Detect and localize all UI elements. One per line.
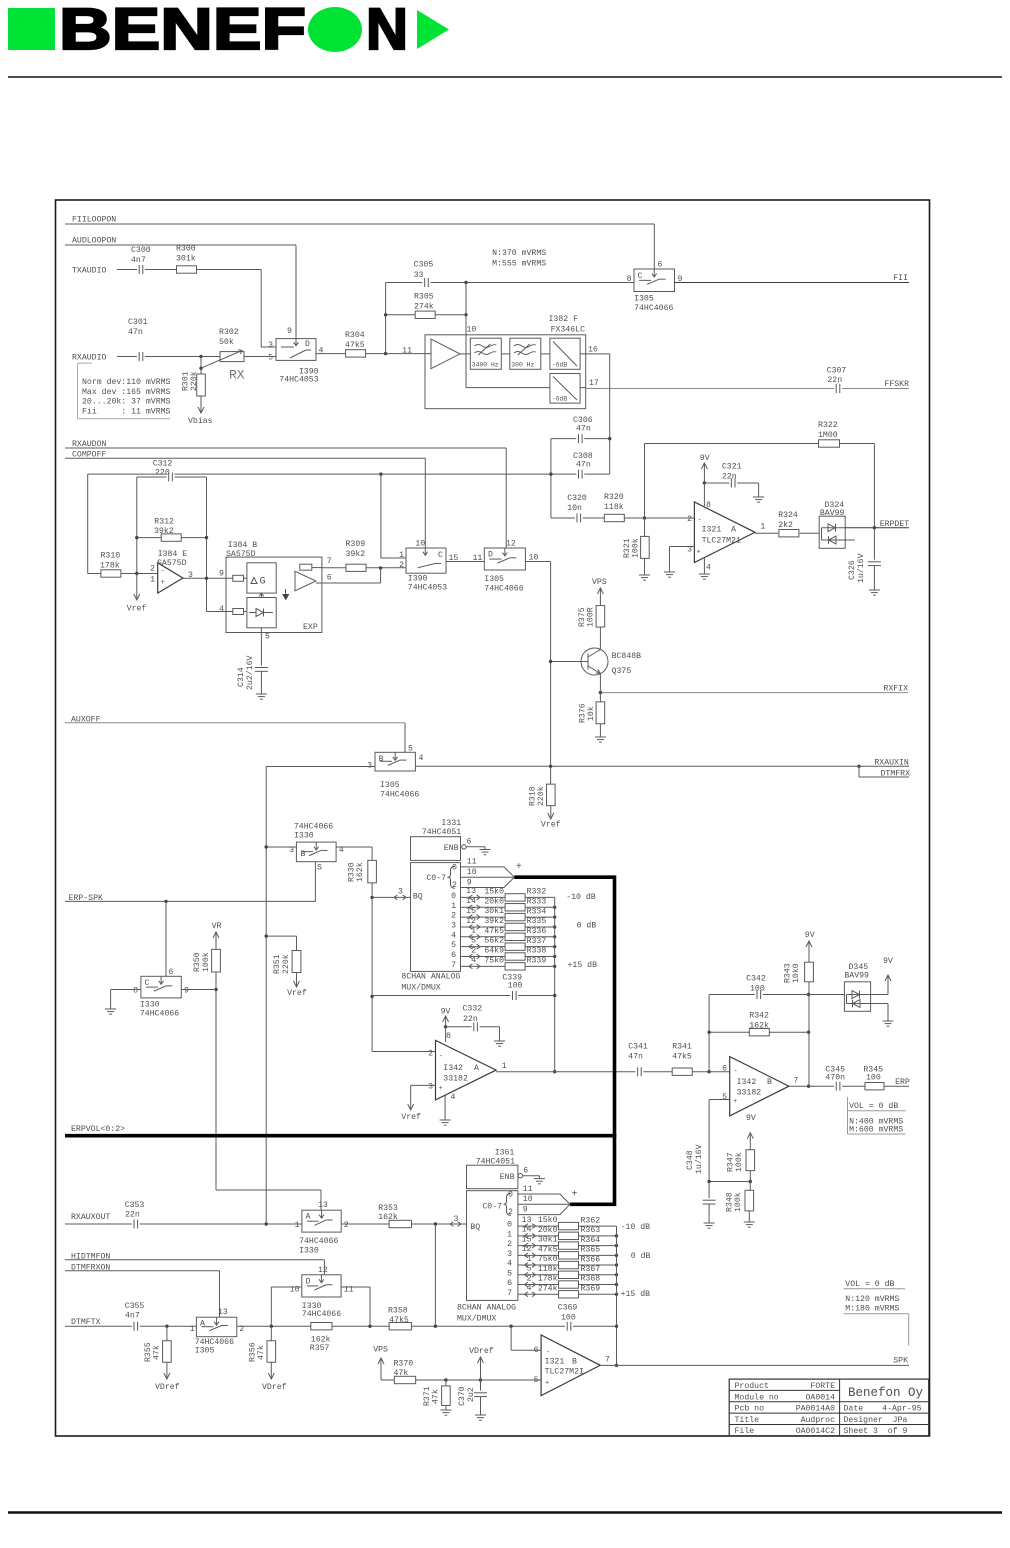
- svg-text:4-Apr-95: 4-Apr-95: [882, 1405, 921, 1414]
- svg-text:50k: 50k: [219, 337, 234, 347]
- svg-text:+: +: [439, 1085, 443, 1093]
- svg-text:ENB: ENB: [444, 844, 459, 853]
- svg-text:N:120 mVRMS: N:120 mVRMS: [845, 1295, 899, 1304]
- svg-text:I330: I330: [140, 1001, 160, 1010]
- svg-text:C370: C370: [458, 1386, 467, 1406]
- svg-text:2u2/16V: 2u2/16V: [245, 656, 255, 690]
- svg-text:1: 1: [502, 1062, 507, 1071]
- svg-text:1: 1: [150, 576, 155, 585]
- svg-text:R350: R350: [193, 952, 202, 972]
- svg-text:VR: VR: [212, 922, 222, 931]
- svg-text:Title: Title: [735, 1415, 760, 1425]
- svg-text:0: 0: [451, 892, 456, 901]
- svg-text:15: 15: [522, 1235, 532, 1244]
- svg-text:5: 5: [265, 633, 270, 642]
- svg-text:3: 3: [451, 921, 456, 930]
- svg-text:I305: I305: [195, 1347, 215, 1356]
- svg-text:I305: I305: [380, 781, 400, 790]
- svg-text:R335: R335: [527, 917, 547, 926]
- svg-text:220k: 220k: [281, 954, 291, 974]
- svg-text:74HC4053: 74HC4053: [279, 376, 318, 385]
- svg-text:3: 3: [268, 341, 273, 350]
- svg-text:-: -: [734, 1068, 738, 1076]
- svg-text:14: 14: [466, 897, 476, 906]
- svg-text:C326: C326: [848, 560, 857, 580]
- svg-text:BAV99: BAV99: [844, 971, 869, 980]
- svg-text:TLC27M21: TLC27M21: [702, 537, 741, 546]
- svg-text:R366: R366: [581, 1255, 601, 1264]
- svg-text:I321: I321: [702, 526, 722, 535]
- svg-text:B: B: [379, 755, 384, 764]
- svg-text:+: +: [733, 1098, 737, 1106]
- svg-text:BC848B: BC848B: [612, 652, 642, 661]
- svg-text:22n: 22n: [125, 1211, 140, 1220]
- svg-text:Q375: Q375: [612, 667, 632, 676]
- svg-text:100R: 100R: [587, 607, 596, 627]
- svg-text:10k0: 10k0: [791, 963, 801, 983]
- svg-text:C314: C314: [237, 667, 246, 687]
- svg-text:47k5: 47k5: [484, 926, 504, 936]
- svg-text:6: 6: [507, 1279, 512, 1288]
- svg-text:A: A: [306, 1213, 311, 1222]
- svg-text:5: 5: [722, 1093, 727, 1102]
- svg-text:64k9: 64k9: [484, 946, 504, 956]
- svg-text:11: 11: [467, 858, 477, 867]
- svg-text:Audproc: Audproc: [801, 1415, 835, 1425]
- svg-text:C342: C342: [746, 975, 766, 984]
- svg-text:I361: I361: [495, 1149, 515, 1158]
- svg-text:VDref: VDref: [262, 1382, 287, 1392]
- svg-text:OA0014: OA0014: [806, 1393, 836, 1402]
- svg-text:RXAUDIO: RXAUDIO: [72, 354, 106, 363]
- svg-text:M:555 mVRMS: M:555 mVRMS: [492, 259, 546, 268]
- svg-text:1: 1: [399, 551, 404, 560]
- svg-text:2: 2: [508, 1208, 513, 1217]
- svg-text:D: D: [488, 551, 493, 560]
- svg-text:74HC4066: 74HC4066: [294, 823, 333, 832]
- svg-text:11: 11: [472, 554, 482, 563]
- svg-text:10: 10: [415, 540, 425, 549]
- svg-text:R342: R342: [749, 1011, 769, 1020]
- svg-text:22n: 22n: [463, 1015, 478, 1024]
- svg-text:RX: RX: [229, 368, 245, 383]
- svg-text:2: 2: [344, 1221, 349, 1230]
- svg-text:-: -: [161, 568, 165, 576]
- svg-text:R302: R302: [219, 328, 239, 337]
- svg-text:VPS: VPS: [592, 578, 607, 587]
- svg-text:VDref: VDref: [155, 1382, 180, 1392]
- svg-text:C: C: [145, 979, 150, 988]
- svg-text:VPS: VPS: [373, 1346, 388, 1355]
- svg-text:74HC4066: 74HC4066: [380, 791, 419, 800]
- svg-text:SPK: SPK: [893, 1357, 908, 1366]
- svg-text:+: +: [697, 549, 701, 557]
- svg-text:301k: 301k: [176, 254, 196, 264]
- svg-text:C320: C320: [567, 494, 587, 503]
- svg-text:4: 4: [319, 347, 324, 356]
- svg-text:2: 2: [452, 881, 457, 890]
- svg-text:178k: 178k: [100, 561, 120, 571]
- svg-text:D: D: [305, 340, 310, 349]
- svg-text:R363: R363: [581, 1226, 601, 1235]
- svg-text:3: 3: [398, 888, 403, 897]
- svg-text:4: 4: [451, 931, 456, 940]
- svg-text:118k: 118k: [538, 1264, 558, 1274]
- svg-text:220: 220: [155, 469, 170, 478]
- svg-text:MUX/DMUX: MUX/DMUX: [401, 982, 440, 992]
- svg-text:N: N: [366, 0, 408, 62]
- svg-text:Norm dev:110 mVRMS: Norm dev:110 mVRMS: [82, 377, 171, 387]
- svg-text:A: A: [200, 1320, 205, 1329]
- svg-text:47n: 47n: [576, 425, 591, 434]
- svg-text:5: 5: [268, 354, 273, 363]
- svg-text:162k: 162k: [749, 1021, 769, 1031]
- svg-text:A: A: [474, 1064, 479, 1073]
- svg-text:R332: R332: [527, 888, 547, 897]
- svg-text:10: 10: [467, 326, 477, 335]
- svg-text:C0-7: C0-7: [426, 874, 446, 883]
- svg-text:Designer JPa: Designer JPa: [844, 1415, 908, 1425]
- svg-text:1u/16V: 1u/16V: [694, 1144, 704, 1174]
- svg-text:17: 17: [589, 379, 599, 388]
- svg-text:100: 100: [561, 1313, 576, 1322]
- svg-text:470n: 470n: [825, 1074, 845, 1083]
- svg-text:15k0: 15k0: [538, 1215, 558, 1225]
- svg-text:VOL = 0 dB: VOL = 0 dB: [849, 1101, 898, 1111]
- svg-text:9: 9: [287, 327, 292, 336]
- svg-text:R333: R333: [527, 897, 547, 906]
- svg-text:C307: C307: [827, 367, 847, 376]
- svg-text:12: 12: [466, 917, 476, 926]
- svg-text:4: 4: [706, 564, 711, 573]
- svg-text:39k2: 39k2: [154, 526, 174, 536]
- svg-text:+: +: [572, 1189, 578, 1200]
- svg-text:1: 1: [190, 1325, 195, 1334]
- svg-text:16: 16: [588, 346, 598, 355]
- svg-text:I390: I390: [408, 575, 428, 584]
- svg-text:10: 10: [523, 1195, 533, 1204]
- svg-text:20k0: 20k0: [484, 896, 504, 906]
- svg-text:I330: I330: [294, 832, 314, 841]
- svg-text:11: 11: [523, 1185, 533, 1194]
- svg-text:FIILOOPON: FIILOOPON: [72, 216, 116, 225]
- svg-text:2: 2: [428, 1050, 433, 1059]
- svg-text:3400 Hz: 3400 Hz: [472, 362, 499, 369]
- svg-text:-6dB: -6dB: [552, 396, 568, 403]
- svg-text:2u2: 2u2: [467, 1387, 476, 1402]
- svg-text:4n7: 4n7: [131, 256, 146, 265]
- svg-text:R369: R369: [581, 1284, 601, 1293]
- svg-text:R305: R305: [414, 293, 434, 302]
- svg-text:R362: R362: [581, 1216, 601, 1225]
- svg-text:56k2: 56k2: [484, 936, 504, 946]
- svg-text:4: 4: [419, 754, 424, 763]
- svg-text:A: A: [731, 526, 736, 535]
- svg-text:2: 2: [451, 912, 456, 921]
- svg-text:75k0: 75k0: [484, 955, 504, 965]
- svg-text:2: 2: [239, 1325, 244, 1334]
- svg-text:1M00: 1M00: [818, 431, 838, 440]
- svg-text:20k0: 20k0: [538, 1225, 558, 1235]
- svg-text:9V: 9V: [805, 931, 815, 940]
- svg-text:13: 13: [466, 887, 476, 896]
- svg-text:2k2: 2k2: [778, 520, 793, 530]
- svg-text:0: 0: [452, 863, 457, 872]
- svg-text:8: 8: [133, 987, 138, 996]
- svg-text:BAV99: BAV99: [820, 509, 845, 518]
- svg-text:VDref: VDref: [469, 1346, 494, 1356]
- svg-text:8: 8: [446, 1032, 451, 1041]
- svg-text:47n: 47n: [628, 1053, 643, 1062]
- svg-text:162k: 162k: [355, 862, 365, 882]
- svg-text:R309: R309: [346, 540, 366, 549]
- svg-text:9: 9: [219, 570, 224, 579]
- svg-text:R338: R338: [527, 947, 547, 956]
- svg-text:9: 9: [467, 878, 472, 887]
- svg-text:13: 13: [218, 1308, 228, 1317]
- svg-text:I342: I342: [737, 1078, 757, 1087]
- svg-text:R300: R300: [176, 245, 196, 254]
- svg-text:+: +: [516, 862, 522, 873]
- svg-text:47k: 47k: [431, 1389, 441, 1404]
- svg-text:100k: 100k: [734, 1152, 744, 1172]
- svg-text:274k: 274k: [538, 1283, 558, 1293]
- svg-text:I384 E: I384 E: [158, 550, 188, 559]
- svg-text:74HC4066: 74HC4066: [634, 304, 673, 313]
- svg-text:Vref: Vref: [127, 604, 147, 614]
- svg-text:-10 dB: -10 dB: [566, 892, 596, 902]
- svg-text:1: 1: [760, 523, 765, 532]
- svg-text:DTMFRX: DTMFRX: [881, 769, 911, 778]
- svg-text:RXAUXIN: RXAUXIN: [874, 758, 908, 767]
- svg-text:R337: R337: [527, 937, 547, 946]
- svg-text:6: 6: [169, 968, 174, 977]
- svg-text:R310: R310: [101, 552, 121, 561]
- svg-text:8CHAN ANALOG: 8CHAN ANALOG: [457, 1304, 516, 1313]
- svg-text:-6dB: -6dB: [552, 362, 568, 369]
- svg-text:162k: 162k: [311, 1334, 331, 1344]
- svg-text:20...20k: 37 mVRMS: 20...20k: 37 mVRMS: [82, 397, 171, 407]
- svg-text:100: 100: [866, 1074, 881, 1083]
- svg-text:6: 6: [658, 261, 663, 270]
- svg-text:R341: R341: [672, 1043, 692, 1052]
- svg-text:C355: C355: [125, 1302, 145, 1311]
- svg-text:47n: 47n: [128, 328, 143, 337]
- svg-text:I321: I321: [545, 1358, 565, 1367]
- svg-text:I342: I342: [443, 1064, 463, 1073]
- svg-text:Product: Product: [735, 1381, 769, 1391]
- svg-text:8CHAN ANALOG: 8CHAN ANALOG: [401, 973, 460, 982]
- svg-text:14: 14: [522, 1226, 532, 1235]
- svg-text:+: +: [545, 1380, 549, 1388]
- svg-text:R357: R357: [310, 1344, 330, 1353]
- svg-text:22n: 22n: [827, 376, 842, 385]
- svg-text:C341: C341: [628, 1043, 648, 1052]
- svg-text:+: +: [161, 579, 165, 587]
- svg-text:-10 dB: -10 dB: [621, 1222, 651, 1232]
- svg-text:-: -: [439, 1053, 443, 1061]
- svg-text:R368: R368: [581, 1275, 601, 1284]
- svg-text:0: 0: [507, 1221, 512, 1230]
- svg-text:0 dB: 0 dB: [577, 921, 597, 931]
- svg-text:10: 10: [467, 868, 477, 877]
- svg-text:BENEF: BENEF: [59, 0, 306, 62]
- svg-text:Benefon Oy: Benefon Oy: [848, 1386, 924, 1400]
- svg-text:R324: R324: [778, 511, 798, 520]
- svg-text:220k: 220k: [189, 371, 199, 391]
- svg-text:2: 2: [150, 565, 155, 574]
- svg-text:C348: C348: [686, 1150, 695, 1170]
- svg-text:R312: R312: [154, 518, 174, 527]
- svg-text:74HC4066: 74HC4066: [299, 1237, 338, 1246]
- svg-text:C369: C369: [558, 1304, 578, 1313]
- svg-text:R322: R322: [818, 421, 838, 430]
- svg-text:10k: 10k: [586, 706, 596, 721]
- svg-text:33182: 33182: [737, 1089, 762, 1098]
- svg-text:6: 6: [467, 838, 472, 847]
- svg-text:12: 12: [318, 1266, 328, 1275]
- svg-text:13: 13: [318, 1201, 328, 1210]
- svg-text:3: 3: [428, 1083, 433, 1092]
- svg-text:47n: 47n: [576, 461, 591, 470]
- svg-text:10n: 10n: [567, 504, 582, 513]
- svg-text:C353: C353: [125, 1201, 145, 1210]
- svg-text:ERPVOL<0:2>: ERPVOL<0:2>: [71, 1125, 125, 1134]
- svg-text:8: 8: [627, 275, 632, 284]
- svg-text:5: 5: [534, 1376, 539, 1385]
- svg-text:4n7: 4n7: [125, 1311, 140, 1320]
- svg-text:7: 7: [451, 961, 456, 970]
- svg-text:R334: R334: [527, 907, 547, 916]
- svg-text:FFSKR: FFSKR: [884, 380, 909, 389]
- svg-text:47k: 47k: [152, 1345, 162, 1360]
- svg-text:15k0: 15k0: [484, 886, 504, 896]
- svg-text:9: 9: [184, 987, 189, 996]
- svg-text:6: 6: [451, 951, 456, 960]
- svg-text:I382 F: I382 F: [549, 315, 579, 324]
- svg-text:ENB: ENB: [500, 1173, 515, 1182]
- svg-text:N:370 mVRMS: N:370 mVRMS: [492, 249, 546, 258]
- svg-text:2: 2: [687, 515, 692, 524]
- svg-text:-: -: [546, 1349, 550, 1357]
- svg-text:15: 15: [466, 907, 476, 916]
- svg-text:D: D: [306, 1278, 311, 1287]
- svg-text:33: 33: [414, 271, 424, 280]
- svg-text:I305: I305: [634, 295, 654, 304]
- svg-text:300 Hz: 300 Hz: [511, 362, 534, 369]
- svg-text:74HC4066: 74HC4066: [302, 1310, 341, 1319]
- svg-text:R351: R351: [273, 954, 282, 974]
- svg-text:4: 4: [451, 1093, 456, 1102]
- svg-text:I305: I305: [484, 575, 504, 584]
- svg-text:C: C: [438, 551, 443, 560]
- svg-text:100k: 100k: [201, 952, 211, 972]
- svg-text:Vref: Vref: [401, 1112, 421, 1122]
- svg-text:RXFIX: RXFIX: [883, 684, 908, 693]
- svg-text:G: G: [260, 577, 266, 588]
- svg-text:R367: R367: [581, 1265, 601, 1274]
- svg-text:47k5: 47k5: [389, 1315, 409, 1325]
- svg-text:I330: I330: [299, 1246, 319, 1255]
- svg-text:6: 6: [534, 1346, 539, 1355]
- svg-text:R358: R358: [388, 1307, 408, 1316]
- svg-text:Pcb no: Pcb no: [735, 1404, 765, 1414]
- svg-text:33182: 33182: [443, 1075, 468, 1084]
- svg-text:BQ: BQ: [470, 1223, 480, 1232]
- svg-text:39k2: 39k2: [346, 549, 366, 559]
- svg-text:15: 15: [449, 554, 459, 563]
- svg-text:12: 12: [506, 540, 516, 549]
- svg-text:FORTE: FORTE: [810, 1382, 835, 1391]
- svg-text:47k5: 47k5: [538, 1244, 558, 1254]
- svg-text:47k5: 47k5: [672, 1052, 692, 1062]
- svg-text:+15 dB: +15 dB: [621, 1289, 651, 1299]
- svg-text:1: 1: [451, 902, 456, 911]
- svg-text:TLC27M2I: TLC27M2I: [545, 1368, 584, 1377]
- svg-text:FX346LC: FX346LC: [551, 326, 585, 335]
- svg-text:ERP: ERP: [895, 1078, 910, 1087]
- svg-text:74HC4051: 74HC4051: [422, 828, 461, 837]
- svg-text:47k: 47k: [256, 1345, 266, 1360]
- svg-text:Sheet 3 of 9: Sheet 3 of 9: [844, 1426, 908, 1436]
- svg-text:Module no: Module no: [735, 1392, 779, 1402]
- svg-text:7: 7: [794, 1077, 799, 1086]
- svg-text:100: 100: [508, 981, 523, 990]
- svg-text:30k1: 30k1: [484, 906, 504, 916]
- svg-text:7: 7: [507, 1289, 512, 1298]
- svg-text:74HC4066: 74HC4066: [484, 585, 523, 594]
- svg-text:DTMFTX: DTMFTX: [71, 1318, 101, 1327]
- svg-text:C301: C301: [128, 318, 148, 327]
- svg-text:100k: 100k: [631, 538, 641, 558]
- svg-text:7: 7: [327, 557, 332, 566]
- svg-text:22n: 22n: [722, 473, 737, 482]
- svg-text:C300: C300: [131, 246, 151, 255]
- svg-text:13: 13: [522, 1216, 532, 1225]
- svg-text:4: 4: [219, 605, 224, 614]
- svg-text:9V: 9V: [700, 454, 710, 463]
- svg-text:I331: I331: [442, 819, 462, 828]
- svg-text:162k: 162k: [378, 1212, 398, 1222]
- svg-text:0 dB: 0 dB: [631, 1251, 651, 1261]
- svg-text:11: 11: [402, 347, 412, 356]
- svg-text:PA0014A0: PA0014A0: [796, 1405, 835, 1414]
- svg-text:M:600 mVRMS: M:600 mVRMS: [849, 1126, 903, 1135]
- svg-text:SA575D: SA575D: [226, 550, 256, 559]
- svg-text:B: B: [572, 1358, 577, 1367]
- svg-text:1: 1: [295, 1221, 300, 1230]
- svg-text:Vref: Vref: [541, 819, 561, 829]
- svg-text:R364: R364: [581, 1236, 601, 1245]
- svg-text:74HC4066: 74HC4066: [140, 1010, 179, 1019]
- svg-text:R365: R365: [581, 1246, 601, 1255]
- svg-text:ERPDET: ERPDET: [880, 520, 910, 529]
- svg-text:-: -: [698, 517, 702, 525]
- svg-text:5: 5: [408, 745, 413, 754]
- svg-text:Max dev :165 mVRMS: Max dev :165 mVRMS: [82, 387, 171, 397]
- svg-text:75k0: 75k0: [538, 1254, 558, 1264]
- svg-text:R339: R339: [527, 957, 547, 966]
- svg-text:100: 100: [750, 985, 765, 994]
- svg-text:5: 5: [451, 941, 456, 950]
- svg-text:M:180 mVRMS: M:180 mVRMS: [845, 1304, 899, 1313]
- svg-text:Vref: Vref: [287, 988, 307, 998]
- svg-text:+15 dB: +15 dB: [568, 960, 598, 970]
- svg-text:274k: 274k: [414, 302, 434, 312]
- svg-text:2: 2: [399, 561, 404, 570]
- svg-text:39k2: 39k2: [484, 916, 504, 926]
- svg-text:File: File: [735, 1426, 755, 1436]
